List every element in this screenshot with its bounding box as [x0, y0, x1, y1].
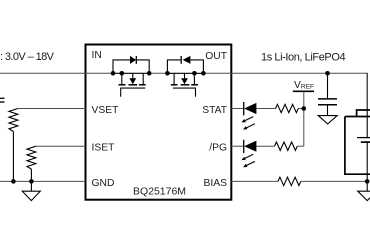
wire: R3 to VREF rail — [298, 108, 304, 110]
resistor R1 VSET programming — [9, 109, 18, 182]
LED D3 STAT indicator — [241, 102, 256, 130]
wire: /PG LED to R4 — [256, 145, 274, 147]
svg-text:GND: GND — [92, 178, 115, 189]
svg-text:: 3.0V – 18V: : 3.0V – 18V — [0, 51, 55, 63]
node VREF partial label at left edge — [0, 98, 5, 102]
wire: STAT pin stub — [231, 108, 243, 110]
resistor R5 BIAS — [278, 177, 301, 185]
diode D1 body diode of Q1 — [113, 56, 149, 73]
wire: R5 to battery negative node — [301, 180, 367, 182]
battery BT1 pack outline tab — [345, 110, 370, 174]
capacitor C1 output — [318, 73, 337, 115]
resistor R2 ISET current programming — [27, 146, 36, 181]
wire: GND net to left edge — [0, 180, 86, 182]
transistor Q2 output blocking FET — [167, 73, 203, 97]
svg-text:BIAS: BIAS — [204, 178, 228, 189]
svg-text:STAT: STAT — [202, 105, 227, 116]
svg-text:BQ25176M: BQ25176M — [133, 185, 186, 197]
LED D4 power-good indicator — [241, 140, 256, 168]
ground symbol at battery negative — [358, 191, 370, 200]
ground symbol left — [22, 181, 40, 200]
wire: VREF rail vertical — [303, 91, 305, 146]
svg-text:OUT: OUT — [205, 51, 227, 62]
wire: mid node between Q1 and Q2 — [149, 72, 167, 74]
wire: ISET pin stub — [36, 145, 86, 147]
wire: OUT net from Q2 to battery — [203, 72, 367, 74]
wire: /PG pin stub — [231, 145, 243, 147]
resistor R4 /PG LED series — [275, 142, 298, 150]
transistor Q1 input blocking FET — [113, 73, 149, 97]
svg-text:ISET: ISET — [92, 143, 116, 154]
node VREF rail bar — [293, 90, 314, 92]
IC U1 BQ25176M body — [86, 45, 232, 200]
wire: BIAS pin stub — [231, 180, 278, 182]
wire: VSET pin stub — [18, 108, 86, 110]
wire: STAT LED to R3 — [256, 108, 275, 110]
ground symbol at C1 — [318, 116, 337, 124]
wire: IN net from left edge into IC — [0, 72, 113, 74]
battery BT1 cell symbol — [357, 110, 370, 191]
svg-text:/PG: /PG — [209, 143, 227, 154]
svg-text:1s Li-Ion, LiFePO4: 1s Li-Ion, LiFePO4 — [261, 51, 345, 63]
svg-text:VSET: VSET — [92, 105, 120, 116]
resistor R3 STAT LED series — [276, 104, 299, 112]
diode D2 body diode of Q2 — [167, 56, 203, 73]
svg-text:IN: IN — [92, 50, 102, 61]
wire: R4 to VREF rail corner — [297, 145, 304, 147]
